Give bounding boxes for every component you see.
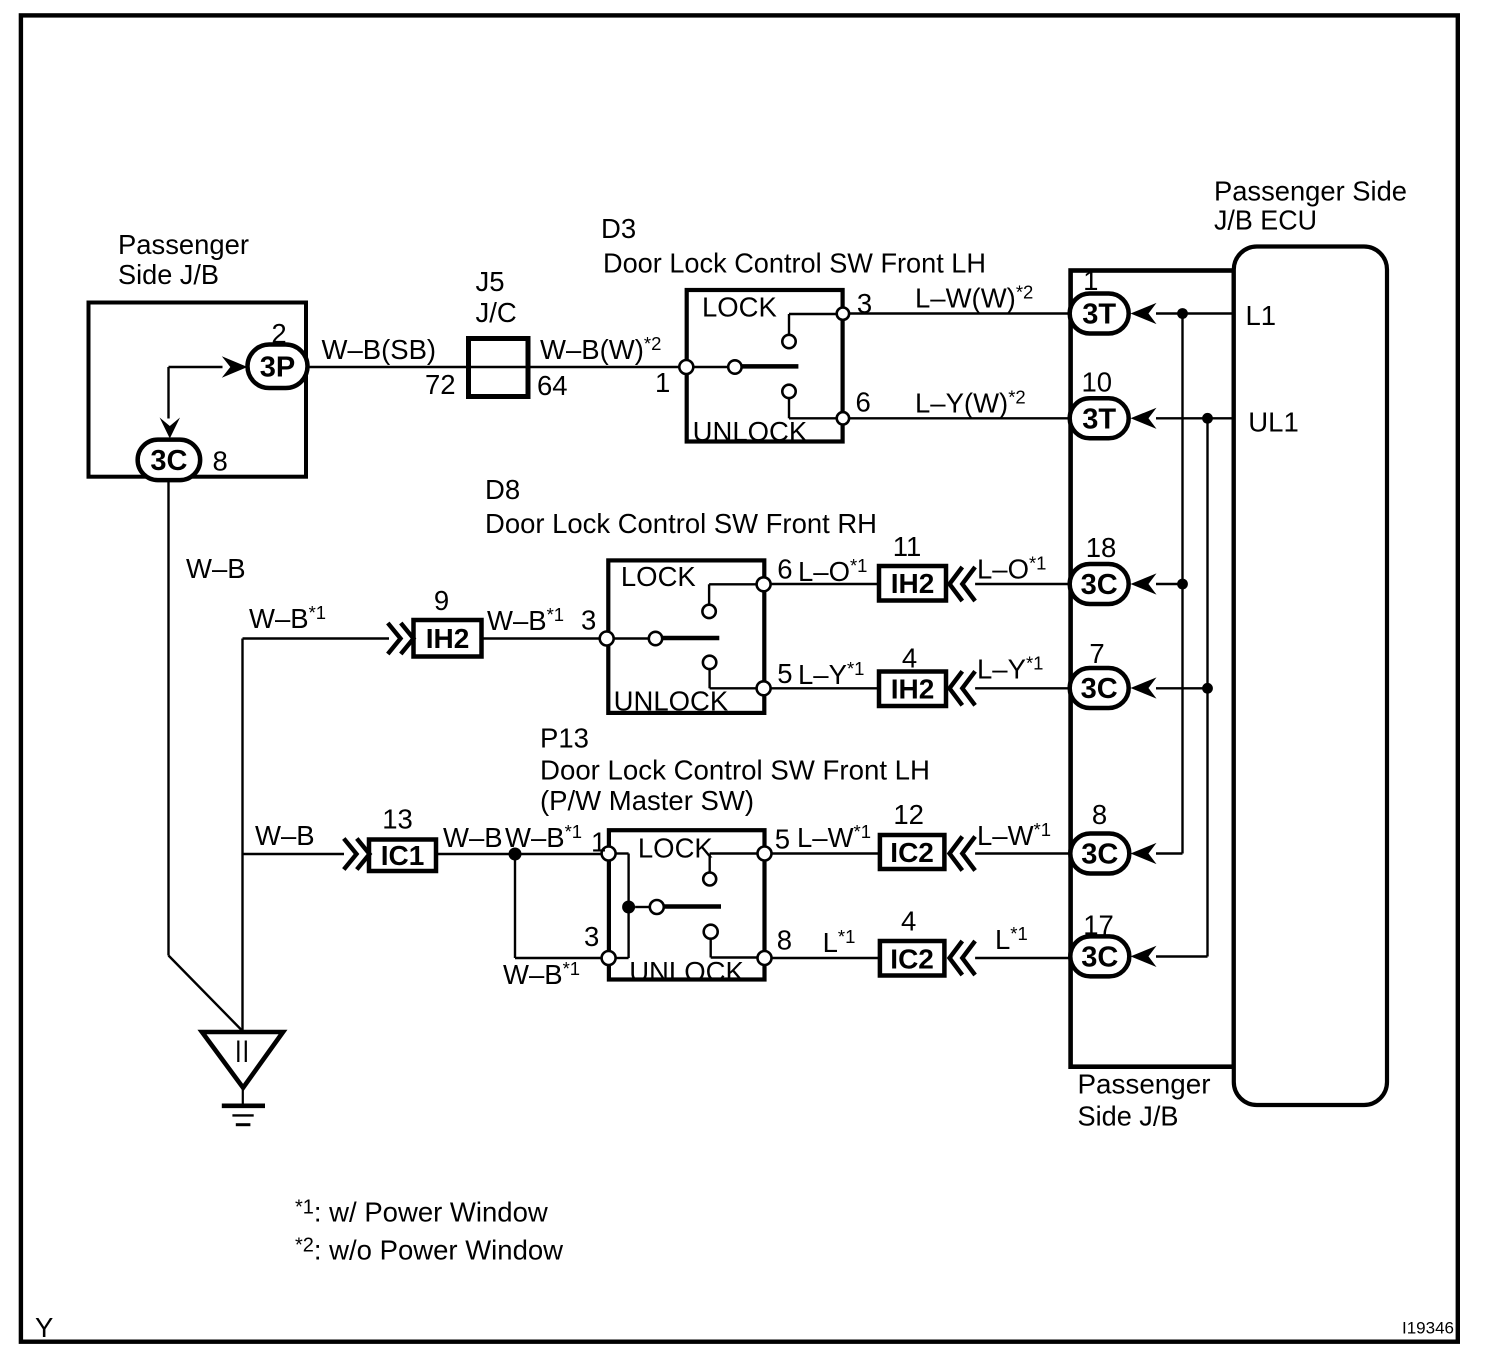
svg-text:UL1: UL1 xyxy=(1248,407,1298,438)
svg-text:3C: 3C xyxy=(1081,839,1118,871)
svg-text:Door Lock Control SW Front LH: Door Lock Control SW Front LH xyxy=(540,755,930,786)
svg-text:D3: D3 xyxy=(601,213,636,244)
svg-text:(P/W Master SW): (P/W Master SW) xyxy=(540,785,754,816)
svg-text:3T: 3T xyxy=(1082,404,1116,436)
svg-text:W–B(SB): W–B(SB) xyxy=(322,334,437,365)
svg-text:6: 6 xyxy=(856,387,871,418)
svg-text:W–B: W–B xyxy=(186,553,246,584)
svg-text:IC2: IC2 xyxy=(890,837,934,868)
svg-text:L–W(W)*2: L–W(W)*2 xyxy=(915,282,1033,314)
svg-text:Passenger Side: Passenger Side xyxy=(1214,176,1407,207)
svg-text:2: 2 xyxy=(271,318,286,349)
svg-text:8: 8 xyxy=(1092,799,1107,830)
svg-text:J5: J5 xyxy=(476,266,505,297)
svg-text:3C: 3C xyxy=(1081,569,1118,601)
svg-text:3: 3 xyxy=(857,288,872,319)
svg-text:Passenger: Passenger xyxy=(118,229,249,260)
svg-text:4: 4 xyxy=(901,906,916,937)
svg-text:Side J/B: Side J/B xyxy=(118,259,219,290)
svg-text:IC1: IC1 xyxy=(381,840,425,871)
svg-text:8: 8 xyxy=(213,446,228,477)
svg-text:LOCK: LOCK xyxy=(621,561,697,592)
svg-text:D8: D8 xyxy=(485,474,520,505)
svg-text:3: 3 xyxy=(584,921,599,952)
svg-text:11: 11 xyxy=(893,531,922,562)
svg-text:3P: 3P xyxy=(260,352,295,384)
svg-text:J/B ECU: J/B ECU xyxy=(1214,205,1317,236)
svg-text:IH2: IH2 xyxy=(891,674,935,705)
svg-text:12: 12 xyxy=(893,799,924,830)
svg-text:LOCK: LOCK xyxy=(702,292,778,323)
svg-text:UNLOCK: UNLOCK xyxy=(693,416,808,447)
svg-text:17: 17 xyxy=(1083,910,1114,941)
svg-text:UNLOCK: UNLOCK xyxy=(629,956,744,987)
svg-text:9: 9 xyxy=(434,585,449,616)
svg-text:Door Lock Control SW Front LH: Door Lock Control SW Front LH xyxy=(603,248,986,279)
svg-text:J/C: J/C xyxy=(476,297,517,328)
svg-text:3C: 3C xyxy=(1081,673,1118,705)
svg-text:Y: Y xyxy=(35,1312,53,1343)
svg-text:UNLOCK: UNLOCK xyxy=(614,686,729,717)
svg-text:P13: P13 xyxy=(540,723,589,754)
svg-text:W–B: W–B xyxy=(255,820,315,851)
svg-text:18: 18 xyxy=(1086,532,1117,563)
svg-text:W–B(W)*2: W–B(W)*2 xyxy=(540,333,661,365)
svg-text:3C: 3C xyxy=(150,445,187,477)
svg-text:L1: L1 xyxy=(1246,300,1277,331)
svg-text:4: 4 xyxy=(902,643,917,674)
svg-text:1: 1 xyxy=(591,827,606,858)
svg-text:64: 64 xyxy=(537,370,568,401)
svg-text:Passenger: Passenger xyxy=(1078,1069,1211,1100)
svg-text:5: 5 xyxy=(777,658,792,689)
svg-text:1: 1 xyxy=(655,367,670,398)
svg-text:7: 7 xyxy=(1089,638,1104,669)
svg-text:LOCK: LOCK xyxy=(638,833,714,864)
svg-text:W–B: W–B xyxy=(443,822,503,853)
svg-text:Door Lock Control SW Front RH: Door Lock Control SW Front RH xyxy=(485,508,877,539)
svg-text:*2: w/o Power Window: *2: w/o Power Window xyxy=(295,1235,563,1266)
svg-text:IH2: IH2 xyxy=(891,568,935,599)
svg-text:3C: 3C xyxy=(1081,942,1118,974)
svg-text:10: 10 xyxy=(1082,367,1113,398)
svg-text:1: 1 xyxy=(1083,265,1098,296)
svg-text:*1: w/ Power Window: *1: w/ Power Window xyxy=(295,1197,548,1228)
svg-text:IH2: IH2 xyxy=(426,623,470,654)
svg-text:I19346: I19346 xyxy=(1402,1319,1454,1338)
svg-text:3: 3 xyxy=(581,604,596,635)
svg-text:72: 72 xyxy=(425,369,456,400)
svg-text:IC2: IC2 xyxy=(890,943,934,974)
svg-text:13: 13 xyxy=(382,804,413,835)
svg-text:3T: 3T xyxy=(1082,299,1116,331)
svg-text:8: 8 xyxy=(777,925,792,956)
svg-text:6: 6 xyxy=(777,554,792,585)
svg-text:5: 5 xyxy=(775,824,790,855)
svg-text:Side J/B: Side J/B xyxy=(1078,1101,1179,1132)
